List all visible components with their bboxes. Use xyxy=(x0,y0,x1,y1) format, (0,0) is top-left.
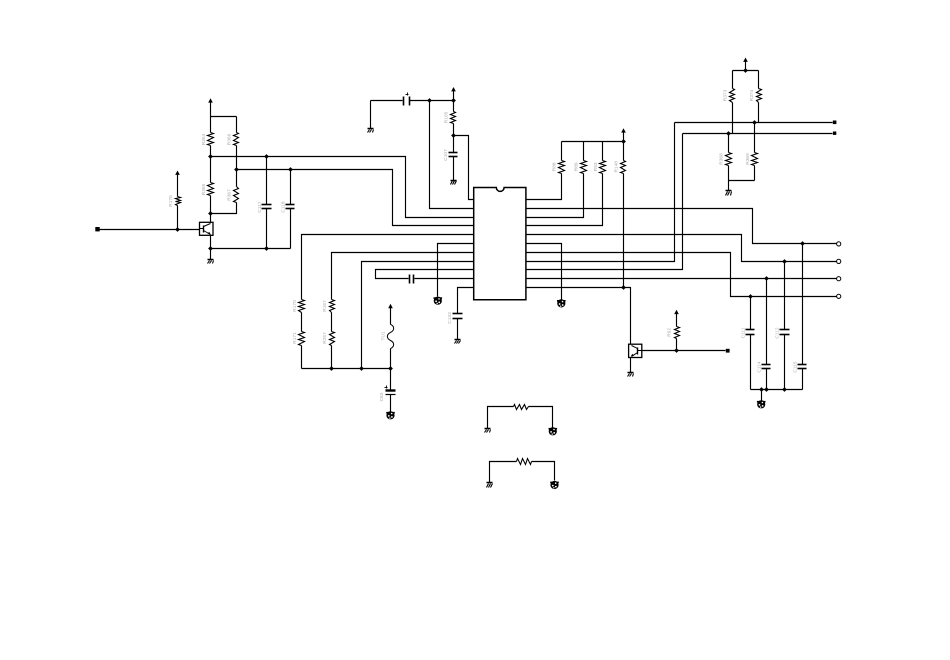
wire R201 right lead xyxy=(529,407,553,428)
capacitor C109 (pins 9-10) xyxy=(410,275,414,284)
svg-text:R369: R369 xyxy=(745,153,751,165)
wire R201 left lead xyxy=(488,407,514,429)
svg-text:R105: R105 xyxy=(443,111,449,123)
wire divider bottom rail xyxy=(729,180,755,182)
wire R148 top lead xyxy=(623,142,625,161)
wire Q2 emitter down xyxy=(630,358,632,373)
resistor R167 xyxy=(322,300,334,313)
wire R170-R171 xyxy=(301,313,303,332)
junction rail/R257 xyxy=(329,366,334,371)
junction node2/R368 xyxy=(726,131,731,136)
wire rail left drop xyxy=(370,101,372,129)
capacitor C114 xyxy=(756,361,770,372)
wire C111 to rail xyxy=(750,335,752,390)
resistor R176 (left pull-up) xyxy=(168,195,181,207)
resistor R92 xyxy=(667,327,680,339)
power arrow VCC TU1 xyxy=(388,304,393,325)
wire pin 7 to R167 chain xyxy=(332,253,474,300)
wire R374 top lead xyxy=(758,71,760,89)
wire R171 to rail xyxy=(301,346,303,369)
junction emitter rail xyxy=(208,246,213,251)
wire pin 19 to T3 xyxy=(526,278,837,280)
terminal T4 xyxy=(837,294,841,298)
svg-text:R88: R88 xyxy=(552,162,558,171)
svg-text:R171: R171 xyxy=(292,332,298,344)
svg-text:C133: C133 xyxy=(447,312,453,324)
resistor R201 xyxy=(514,405,529,410)
junction T2/C112 branch xyxy=(782,259,787,264)
terminal T1 xyxy=(837,242,841,246)
wire C115 branch xyxy=(802,244,804,365)
wire pin 23 to earth xyxy=(526,244,562,300)
wire R366 top lead xyxy=(236,117,238,133)
svg-text:C115: C115 xyxy=(793,361,799,372)
svg-text:R176: R176 xyxy=(168,195,174,207)
wire long vertical to pin 2 xyxy=(430,101,474,209)
power arrow VCC bank xyxy=(621,128,626,141)
wire C112 branch xyxy=(784,262,786,330)
wire pin 22 to T4 xyxy=(526,253,837,297)
svg-text:R374: R374 xyxy=(749,89,755,101)
wire R93 to pin 25 xyxy=(526,174,603,226)
wire R373 top lead xyxy=(732,71,734,89)
resistor R374 xyxy=(749,89,762,103)
wire pin 6 to earth xyxy=(438,244,474,297)
junction R105/C107 node xyxy=(451,133,456,138)
wire R365 to Q1 collector node xyxy=(210,196,212,223)
capacitor C117 xyxy=(257,201,272,212)
wire C112 to rail xyxy=(784,335,786,390)
resistor R257 xyxy=(322,332,334,346)
junction rail/C112 xyxy=(782,387,787,392)
svg-text:C112: C112 xyxy=(775,327,781,338)
power arrow VCC top-right xyxy=(743,58,748,71)
wire pin 5 to R170 chain xyxy=(302,235,474,300)
terminal T3 xyxy=(837,277,841,281)
wire cap to arrow node xyxy=(410,100,454,102)
wire divider top rail xyxy=(211,116,237,118)
wire Q1 emitter down xyxy=(210,236,212,260)
wire R368 bottom lead xyxy=(728,166,730,181)
wire arrow to R105 xyxy=(453,101,455,112)
wire C118 top to node B xyxy=(290,170,292,205)
transistor Q1 xyxy=(200,222,214,235)
wire R89 top lead xyxy=(583,142,585,161)
wire pin 24 to T2 xyxy=(526,235,837,262)
junction T3/C114 branch xyxy=(764,276,769,281)
resistor R88 xyxy=(552,161,565,174)
wire C118 bottom lead xyxy=(290,209,292,249)
ground C107 xyxy=(451,181,457,185)
svg-text:TU1: TU1 xyxy=(380,331,386,340)
wire top-right rail xyxy=(733,70,759,72)
terminal P3 xyxy=(726,349,730,353)
wire cap bank rail xyxy=(751,389,803,391)
power arrow VCC top-middle xyxy=(451,87,456,101)
junction Q2 base/R92 xyxy=(674,348,679,353)
power arrow VCC (divider top) xyxy=(208,98,213,116)
ground R202 left xyxy=(487,483,493,488)
svg-text:R170: R170 xyxy=(292,300,298,312)
wire R257 to rail xyxy=(331,346,333,369)
junction R148/pin18 wire xyxy=(621,285,626,290)
junction Q1 collector xyxy=(208,211,213,216)
earth ground R201 right xyxy=(549,427,558,435)
wire R369 bottom lead xyxy=(754,166,756,181)
wire R176 to input wire xyxy=(177,206,179,230)
junction rail/pin8 wire xyxy=(359,366,364,371)
inductor TU1 xyxy=(380,324,393,348)
wire C117 bottom lead xyxy=(266,209,268,249)
junction bank rail/arrow xyxy=(621,139,626,144)
wire Q2 base to terminal xyxy=(642,350,726,352)
power arrow VCC (left pull-up) xyxy=(175,171,180,197)
capacitor C112 xyxy=(775,327,790,338)
wire input to Q1 base xyxy=(99,229,200,231)
svg-text:R167: R167 xyxy=(322,300,328,312)
svg-text:R364: R364 xyxy=(201,133,207,145)
wire C83 to earth xyxy=(390,395,392,412)
resistor R171 xyxy=(292,332,305,346)
IC U1 xyxy=(474,188,526,300)
junction input/R176 xyxy=(175,227,180,232)
junction top-middle node xyxy=(451,98,456,103)
wire C107 to ground xyxy=(453,157,455,181)
wire node B to pin 4 xyxy=(237,170,474,226)
svg-text:R365: R365 xyxy=(201,183,207,195)
earth ground R202 right xyxy=(550,481,559,489)
junction node1/R369 xyxy=(752,120,757,125)
svg-text:R92: R92 xyxy=(667,328,673,337)
svg-text:R367: R367 xyxy=(227,189,233,201)
junction C118 top xyxy=(288,167,293,172)
resistor R364 xyxy=(201,133,214,146)
capacitor C115 xyxy=(793,361,807,372)
svg-text:C107: C107 xyxy=(443,149,449,161)
earth ground cap bank xyxy=(757,400,766,408)
junction rail/earth drop xyxy=(759,387,764,392)
wire top rail xyxy=(371,100,403,102)
capacitor C106 (polarized) xyxy=(404,93,410,106)
svg-text:R148: R148 xyxy=(613,161,619,173)
input terminal J1 xyxy=(95,227,99,231)
wire C114 to rail xyxy=(766,369,768,390)
wire TU1 to rail xyxy=(390,349,392,369)
capacitor C111 xyxy=(740,327,754,338)
wire C109 to pin 10 xyxy=(415,278,474,280)
junction node A xyxy=(208,154,213,159)
resistor R373 xyxy=(723,89,735,103)
junction C117 bottom xyxy=(264,246,269,251)
junction T4/C111 branch xyxy=(748,294,753,299)
svg-text:C117: C117 xyxy=(257,201,263,212)
wire R89 to pin 26 xyxy=(526,174,584,218)
wire R202 left lead xyxy=(490,462,517,483)
wire emitter rail xyxy=(211,248,291,250)
junction C117 top xyxy=(264,154,269,159)
resistor R202 xyxy=(517,459,532,465)
wire rail to earth xyxy=(761,390,763,401)
wire R364 top lead xyxy=(210,117,212,133)
svg-text:C114: C114 xyxy=(756,361,762,372)
resistor R170 xyxy=(292,300,305,313)
wire pin 8 down xyxy=(362,262,474,369)
wire R374 bottom to node 1 xyxy=(758,103,760,123)
wire VCC rail (bank) xyxy=(562,141,624,143)
wire R88 top lead xyxy=(561,142,563,161)
wire pin 11 to C133 xyxy=(458,288,474,314)
wire R373 bottom to node 2 xyxy=(732,103,734,134)
wire R202 right lead xyxy=(532,462,555,481)
wire C117 top to node A xyxy=(266,157,268,205)
junction rail/TU1 xyxy=(388,366,393,371)
wire C115 to rail xyxy=(802,369,804,390)
transistor Q2 xyxy=(629,344,642,357)
ground C133 xyxy=(455,340,461,344)
wire R105 to C107 node xyxy=(453,124,455,153)
earth ground pin 6 xyxy=(434,297,443,305)
svg-text:R368: R368 xyxy=(719,153,725,165)
resistor R368 xyxy=(719,153,732,166)
wire R167-R257 xyxy=(331,313,333,332)
capacitor C118 xyxy=(281,201,295,212)
junction top-right arrow xyxy=(743,68,748,73)
capacitor C133 xyxy=(447,312,463,324)
wire rail to ground xyxy=(728,181,730,191)
resistor R369 xyxy=(745,153,758,166)
junction long vertical tap xyxy=(427,98,432,103)
wire R369 top lead xyxy=(754,123,756,153)
wire pin 20 to divider node 2 xyxy=(526,134,683,270)
wire R366-R367 link xyxy=(236,146,238,187)
svg-text:C83: C83 xyxy=(379,392,385,401)
ground top-right divider xyxy=(726,191,732,196)
wire R93 top lead xyxy=(602,142,604,161)
terminal T2 xyxy=(837,259,841,263)
terminal P2 xyxy=(833,132,836,135)
wire R88 to pin 28 xyxy=(526,174,562,200)
terminal P1 xyxy=(833,121,837,125)
capacitor C83 (polarized) xyxy=(379,386,396,402)
svg-text:R366: R366 xyxy=(227,133,233,145)
junction T1/C115 branch xyxy=(800,241,805,246)
wire pin 18 to Q2 collector xyxy=(526,288,631,345)
wire R368 top lead xyxy=(728,134,730,153)
svg-text:C118: C118 xyxy=(281,201,287,212)
wire node A to pin 3 xyxy=(211,157,474,218)
svg-text:R89: R89 xyxy=(574,162,580,171)
wire pin 27 to T1 xyxy=(526,209,837,244)
resistor R89 xyxy=(574,161,587,174)
wire R148 down to pin 18 net xyxy=(623,174,625,288)
power arrow VCC R92 xyxy=(674,310,679,327)
capacitor C107 xyxy=(443,149,458,161)
wire bottom rail xyxy=(302,368,391,370)
wire R367 bottom to collector node xyxy=(211,203,237,214)
wire pin 9 / pin 10 loop xyxy=(376,270,474,279)
ground R201 left xyxy=(485,429,491,433)
resistor R105 xyxy=(443,111,455,123)
earth ground pin 23 xyxy=(557,299,566,307)
svg-text:C111: C111 xyxy=(740,327,746,338)
resistor R367 xyxy=(227,187,239,203)
ground top-middle xyxy=(368,129,374,133)
wire node 1 xyxy=(675,122,833,124)
wire node 2 xyxy=(683,133,833,135)
wire C111 branch xyxy=(750,297,752,330)
resistor R93 xyxy=(593,161,606,174)
svg-text:R257: R257 xyxy=(322,332,328,344)
wire C133 to ground xyxy=(457,319,459,340)
resistor R366 xyxy=(227,133,239,146)
svg-text:R373: R373 xyxy=(723,89,729,101)
junction rail/C114 xyxy=(764,387,769,392)
wire R364-R365 link xyxy=(210,146,212,183)
svg-text:R93: R93 xyxy=(593,162,599,171)
wire pin 21 to divider node 1 xyxy=(526,123,675,262)
resistor R365 xyxy=(201,183,214,196)
junction node B xyxy=(234,167,239,172)
wire R92 bottom lead xyxy=(676,339,678,351)
ground Q1 emitter xyxy=(208,260,214,264)
resistor R148 xyxy=(613,161,625,174)
wire rail to C83 xyxy=(390,369,392,390)
wire node to pin 1 xyxy=(454,136,474,200)
ground Q2 emitter xyxy=(628,373,634,377)
earth ground C83 xyxy=(386,411,395,419)
wire C114 branch xyxy=(766,279,768,365)
